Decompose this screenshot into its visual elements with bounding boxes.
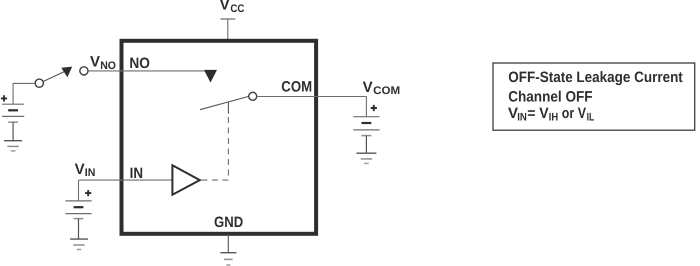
ground G1 line 3 xyxy=(11,150,16,152)
wire IN xyxy=(79,179,173,181)
battery B3 plate 2 xyxy=(362,122,372,124)
svg-text:V: V xyxy=(75,161,85,178)
wire VCC to box xyxy=(227,19,229,40)
wire VCOM battery drop xyxy=(365,97,367,117)
svg-text:V: V xyxy=(90,54,100,71)
IC box U1 xyxy=(122,41,317,234)
svg-text:CC: CC xyxy=(230,3,244,15)
switch S1 arm xyxy=(43,72,64,82)
ground G4 line 2 xyxy=(224,258,233,260)
ground G3 line 2 xyxy=(361,158,372,160)
buffer driver U2 xyxy=(172,165,199,194)
svg-text:V: V xyxy=(220,0,230,14)
svg-text:OFF-State Leakage Current: OFF-State Leakage Current xyxy=(508,69,683,86)
ground G2 line 2 xyxy=(73,244,84,246)
wire VIN battery drop xyxy=(78,180,80,201)
battery B2 plate 1 xyxy=(65,200,91,202)
node circle at VNO xyxy=(80,67,88,75)
svg-text:IN: IN xyxy=(517,111,527,123)
battery B3 plate 4 xyxy=(362,135,372,137)
ground G1 line 2 xyxy=(7,145,18,147)
svg-text:NO: NO xyxy=(100,60,116,72)
battery B2 plate 2 xyxy=(74,206,84,208)
wire battery B1 to switch xyxy=(13,83,35,104)
svg-text:V: V xyxy=(363,79,373,96)
VCC supply bar xyxy=(221,18,236,20)
dashed control wire vertical xyxy=(227,117,229,180)
ground G4 line 3 xyxy=(226,264,230,266)
svg-text:NO: NO xyxy=(129,55,150,72)
svg-text:GND: GND xyxy=(214,214,243,231)
dashed control wire horizontal xyxy=(201,179,228,181)
ground G3 line 1 xyxy=(356,152,376,154)
ground G1 line 1 xyxy=(4,140,22,142)
svg-text:IN: IN xyxy=(130,165,143,182)
battery B1 plate 2 xyxy=(8,109,18,111)
battery B1 plate 3 xyxy=(2,115,24,117)
svg-text:COM: COM xyxy=(281,78,312,95)
wire battery B3 to ground xyxy=(365,136,367,153)
plus sign battery B1 xyxy=(1,95,7,101)
battery B1 plate 4 xyxy=(8,121,18,123)
wire COM xyxy=(257,96,367,98)
wire VNO node to box xyxy=(88,70,120,72)
svg-text:IH: IH xyxy=(549,111,558,123)
battery B1 plate 1 xyxy=(2,103,24,105)
plus sign battery B2 xyxy=(85,190,91,196)
ground G2 line 1 xyxy=(70,238,88,240)
wire battery B1 to ground xyxy=(12,122,14,140)
wire battery B2 to ground xyxy=(78,219,80,239)
svg-text:or V: or V xyxy=(562,105,586,122)
switch S1 pole circle xyxy=(35,79,43,87)
svg-text:IL: IL xyxy=(587,111,595,123)
svg-text:COM: COM xyxy=(373,85,400,97)
plus sign battery B3 xyxy=(371,105,377,111)
ground G3 line 3 xyxy=(364,162,369,164)
annotation box xyxy=(493,63,695,130)
internal switch arm xyxy=(200,96,249,109)
ground G2 line 3 xyxy=(77,249,82,251)
svg-text:= V: = V xyxy=(527,105,548,122)
wire GND xyxy=(227,234,229,253)
battery B3 plate 1 xyxy=(353,116,379,118)
battery B3 plate 3 xyxy=(353,129,379,131)
svg-text:Channel OFF: Channel OFF xyxy=(508,88,592,105)
switch actuator tick xyxy=(227,102,229,114)
arrowhead on NO wire (NO throw contact) xyxy=(204,70,217,83)
battery B2 plate 4 xyxy=(74,218,84,220)
internal switch node circle COM xyxy=(249,92,257,100)
svg-text:IN: IN xyxy=(85,167,96,179)
battery B2 plate 3 xyxy=(65,213,91,215)
ground G4 line 1 xyxy=(220,252,236,254)
switch S1 arrowhead xyxy=(61,67,72,78)
wire NO xyxy=(120,70,205,72)
